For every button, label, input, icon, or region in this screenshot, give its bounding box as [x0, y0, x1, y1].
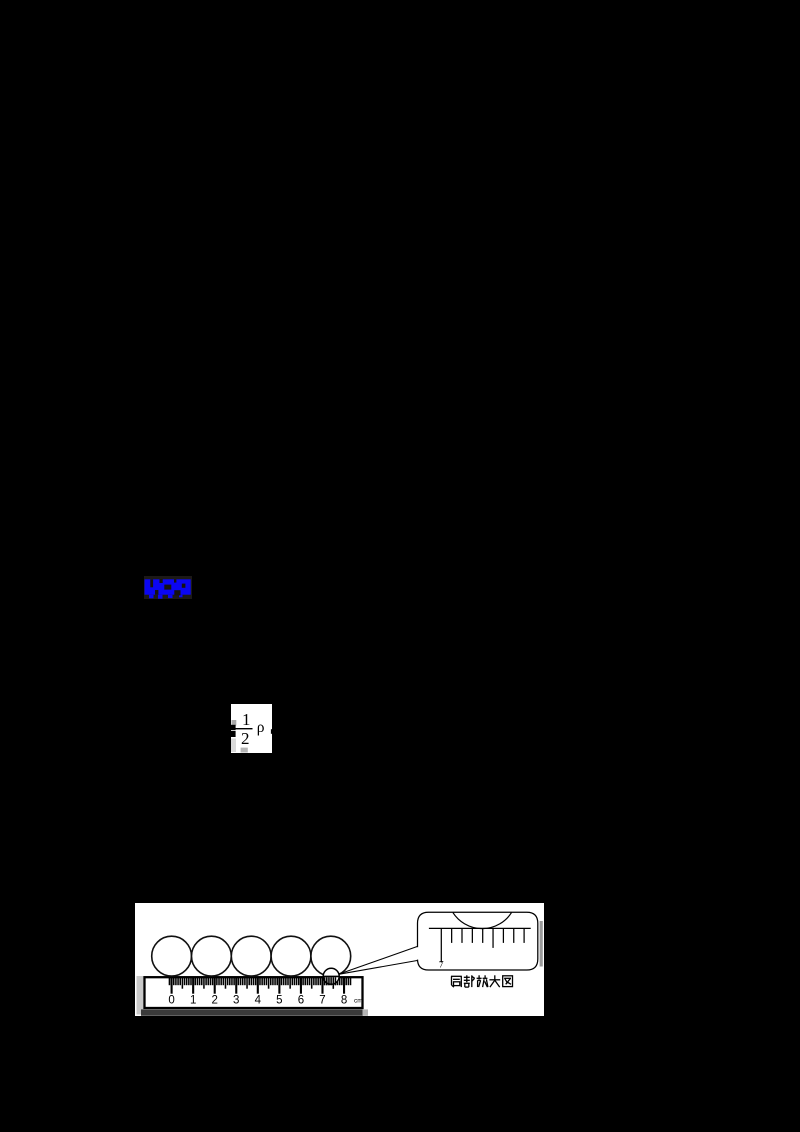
svg-text:7: 7: [319, 995, 325, 1007]
svg-text:6: 6: [298, 995, 304, 1007]
svg-text:1: 1: [190, 995, 196, 1007]
svg-text:4: 4: [255, 995, 262, 1007]
svg-text:0: 0: [168, 995, 174, 1007]
svg-text:7: 7: [439, 961, 444, 971]
svg-text:2: 2: [212, 995, 218, 1007]
svg-text:ρ: ρ: [257, 719, 265, 736]
svg-text:cm: cm: [354, 998, 363, 1005]
svg-text:1: 1: [242, 710, 251, 729]
svg-text:3: 3: [233, 995, 239, 1007]
svg-text:2: 2: [241, 729, 250, 748]
svg-text:5: 5: [276, 995, 282, 1007]
svg-text:8: 8: [341, 995, 347, 1007]
